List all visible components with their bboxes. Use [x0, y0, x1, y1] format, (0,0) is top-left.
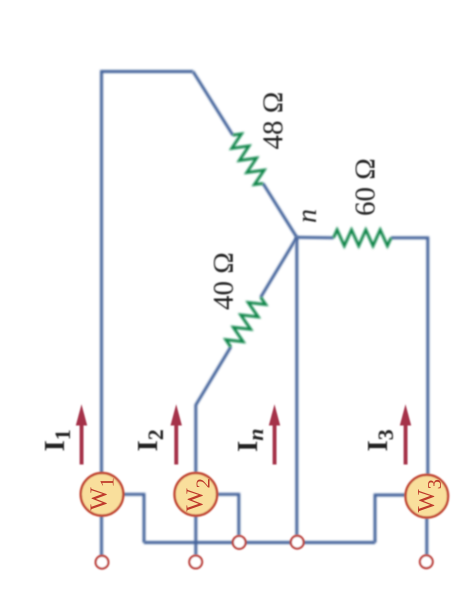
wire 60-ohm resistor to right corner down to W3	[391, 238, 428, 475]
wattmeter W3	[406, 475, 449, 518]
wire W1 bottom to terminal	[100, 515, 103, 556]
wire diagonal from top to 48-ohm resistor	[193, 72, 233, 136]
wire W2 bottom to terminal	[194, 515, 197, 556]
terminal below W1	[96, 556, 109, 569]
current arrow I2	[171, 404, 182, 464]
current arrow I1	[76, 404, 87, 464]
junction terminal on bus (neutral)	[291, 536, 304, 549]
wire 40-ohm resistor down to W2	[196, 347, 231, 473]
wire neutral from node n down to bus junction	[295, 237, 298, 536]
current arrow In	[269, 404, 280, 464]
wire W2 right side down to bus junction	[217, 494, 239, 536]
wire bottom bus	[144, 541, 375, 544]
svg-text:40 Ω: 40 Ω	[208, 252, 240, 310]
wire node n diagonal to 40-ohm resistor	[261, 237, 297, 297]
junction terminal on bus (W2 branch)	[233, 536, 246, 549]
resistor 40 ohm	[226, 297, 266, 347]
terminal below W2	[189, 556, 202, 569]
wire W1 right side down to bus	[123, 494, 145, 542]
wattmeter W1	[81, 473, 124, 516]
terminal below W3	[420, 555, 433, 568]
wire bus up to W3 left side	[375, 495, 406, 543]
svg-text:48 Ω: 48 Ω	[257, 92, 289, 150]
resistor 60 ohm	[334, 230, 392, 246]
wire top-left corner to W1	[102, 72, 194, 474]
svg-text:n: n	[292, 209, 323, 223]
wire 48-ohm resistor to node n	[263, 183, 297, 237]
svg-text:60 Ω: 60 Ω	[350, 158, 382, 216]
wattmeter W2	[175, 473, 218, 516]
current arrow I3	[400, 404, 411, 464]
wire node n to 60-ohm resistor	[297, 236, 334, 239]
wire W3 bottom to terminal	[425, 518, 428, 556]
resistor 48 ohm	[232, 134, 265, 185]
